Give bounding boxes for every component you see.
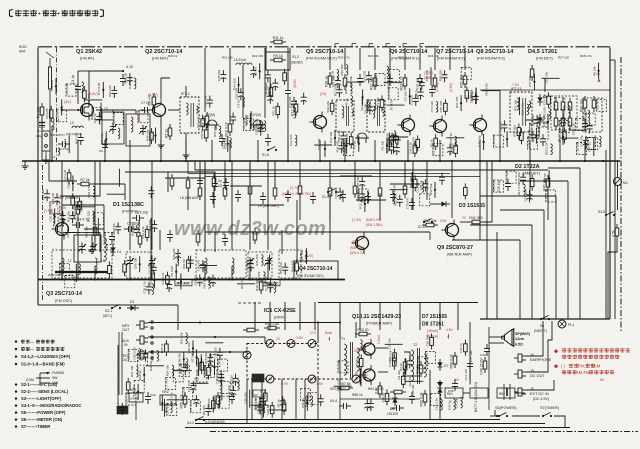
resistor R55 (180, 392, 187, 409)
wire bottom border (185, 427, 570, 429)
wire cluster power amp extra (334, 333, 471, 411)
label Q2 2SC710-14 (145, 49, 183, 61)
jack J4 earphone (514, 353, 552, 362)
label Q5 2SC710-14 (306, 49, 344, 61)
label D4,5 1T261 FM DET (528, 49, 557, 61)
svg-text:R65 4.3k: R65 4.3k (420, 392, 424, 406)
svg-text:C30 10: C30 10 (424, 352, 428, 362)
label SW OSC (258, 204, 279, 208)
svg-text:Q8 2SC710-14: Q8 2SC710-14 (476, 49, 514, 55)
switch S1-8 mid (262, 147, 277, 158)
wire cluster bottom mid2 (146, 358, 239, 416)
svg-text:R44 220: R44 220 (232, 78, 236, 90)
svg-text:C69 0.05: C69 0.05 (132, 347, 136, 360)
wire bottom bus 2 (195, 423, 545, 425)
red volts IC (276, 331, 324, 386)
wire cluster bottom mid (243, 389, 323, 418)
svg-text:C64 33k: C64 33k (103, 232, 107, 244)
svg-text:C9 5p: C9 5p (70, 270, 74, 278)
capacitor C8 2p (212, 179, 222, 191)
VR1 dark slider box (117, 406, 128, 414)
resistor R40 43k (422, 219, 438, 227)
label Q10,11 2SC1429-23 (352, 314, 401, 326)
svg-text:S6--------METER (ON): S6--------METER (ON) (21, 417, 63, 422)
switch net labels (330, 387, 363, 403)
svg-text:R11 30p: R11 30p (513, 100, 517, 111)
wire cluster IF strip lower (314, 128, 601, 157)
red note measurement (554, 348, 630, 359)
svg-text:R68 220: R68 220 (344, 83, 348, 95)
wire band switch bus 3 (205, 161, 480, 177)
svg-text:R9 1k: R9 1k (273, 54, 282, 58)
svg-text:R27 470: R27 470 (240, 277, 244, 289)
svg-text:COM: COM (26, 378, 34, 382)
svg-text:R23 1k: R23 1k (492, 181, 496, 191)
coil L osc tall (104, 238, 109, 261)
svg-text:C29 10k: C29 10k (41, 189, 45, 201)
legend switch list (15, 339, 82, 429)
svg-text:R30 1k: R30 1k (92, 222, 96, 232)
svg-text:C30 56k: C30 56k (207, 398, 211, 410)
wire am mid bus (205, 177, 430, 241)
svg-text:C4 10k: C4 10k (454, 398, 458, 408)
svg-text:L3: L3 (52, 155, 56, 159)
wire mid left components (168, 172, 229, 210)
svg-text:C9 30p: C9 30p (397, 370, 401, 380)
svg-text:EARPHONE: EARPHONE (530, 358, 552, 362)
svg-text:S7(TIMER): S7(TIMER) (540, 406, 560, 410)
svg-text:C50 56k: C50 56k (204, 95, 208, 107)
svg-text:T2: T2 (413, 343, 417, 347)
resistor R56 (213, 392, 220, 408)
svg-text:C57 2.2k: C57 2.2k (259, 389, 263, 402)
svg-text:D2: D2 (130, 300, 134, 304)
svg-text:C45 30p: C45 30p (217, 69, 221, 81)
node Q1 gate junction (42, 109, 79, 161)
capacitor C1 3.4p (36, 118, 45, 138)
svg-text:R8 10k: R8 10k (592, 66, 596, 76)
svg-text:R67 56k: R67 56k (356, 176, 360, 188)
svg-text:C52 56k: C52 56k (562, 105, 566, 117)
svg-text:R1 33k: R1 33k (381, 141, 385, 151)
capacitor C44 (392, 405, 404, 411)
capacitor C22 (417, 74, 423, 86)
resistor R50 (264, 322, 280, 330)
svg-text:R78 2.2k: R78 2.2k (253, 398, 257, 411)
wire right staircase bundle (520, 168, 580, 319)
svg-text:C1 0.05: C1 0.05 (469, 92, 473, 103)
svg-text:C24 5p: C24 5p (447, 400, 451, 410)
red volt 4.5V arrow (446, 328, 454, 339)
wire net bottom right mid (430, 370, 525, 419)
svg-text:(NIGHT): (NIGHT) (534, 329, 547, 333)
svg-text:D8 1T261: D8 1T261 (422, 322, 444, 328)
ceramic filter CF2 (251, 113, 265, 130)
wire cluster osc section (41, 169, 158, 245)
svg-text:6V: 6V (600, 378, 605, 382)
label D3 1S1555 (459, 203, 485, 209)
svg-text:S3--------LIGHT(OFF): S3--------LIGHT(OFF) (21, 396, 62, 401)
svg-text:AM,FM: AM,FM (576, 370, 590, 375)
switch S6 night (534, 316, 550, 334)
red volts Q3 (44, 206, 66, 213)
label D1 1S2138C (113, 202, 144, 214)
svg-text:R16 50: R16 50 (112, 223, 116, 233)
svg-text:R9 1k: R9 1k (345, 98, 349, 106)
svg-text:( ): ( ) (561, 364, 566, 369)
red note parens (554, 364, 614, 376)
svg-text:C7 470: C7 470 (164, 379, 168, 389)
svg-text:R28 4.7k: R28 4.7k (580, 54, 592, 58)
wire left border (37, 48, 39, 306)
label MW OSC bus (263, 280, 280, 286)
red volt (0.6V) (137, 113, 141, 122)
svg-text:S1-4: S1-4 (322, 195, 329, 199)
svg-text:R15 100: R15 100 (255, 254, 259, 266)
svg-text:R49 30p: R49 30p (145, 129, 149, 141)
ceramic filter CF3 (355, 133, 369, 143)
svg-text:R11 1k: R11 1k (273, 36, 284, 40)
svg-text:C23 10p: C23 10p (135, 211, 148, 215)
svg-text:D1: D1 (117, 250, 121, 254)
wire right border (609, 48, 611, 320)
coil L10 MW OSC (232, 258, 234, 274)
box bias 3 (497, 388, 515, 398)
label D7 D8 (422, 314, 447, 328)
svg-text:C37 2.2k: C37 2.2k (169, 392, 173, 405)
IC1 dashed box (247, 344, 318, 380)
svg-text:C49 0.05: C49 0.05 (545, 188, 549, 201)
svg-text:C40 2.2k: C40 2.2k (409, 142, 413, 155)
svg-text:S1-2: S1-2 (292, 55, 299, 59)
svg-text:D3 1S1555: D3 1S1555 (459, 203, 485, 209)
wire IF bus risers (330, 48, 465, 70)
svg-text:FM/MIG: FM/MIG (52, 371, 65, 375)
resistor R67 (480, 357, 487, 375)
svg-text:S4-2: S4-2 (187, 421, 194, 425)
vertical label BATT (474, 382, 478, 412)
wire riser x230 (229, 48, 231, 120)
svg-text:C23 5p: C23 5p (505, 172, 509, 182)
svg-text:MW ANT: MW ANT (177, 281, 190, 285)
svg-text:R18 30p: R18 30p (231, 379, 235, 391)
red volt (2.5V) (148, 93, 158, 97)
svg-text:(4.5V): (4.5V) (293, 79, 297, 88)
wire audio verticals (255, 302, 458, 330)
label Q9 2SC870-27 (437, 245, 473, 257)
svg-text:R54 4.7k: R54 4.7k (87, 185, 91, 198)
svg-text:C9 0.05: C9 0.05 (45, 108, 49, 119)
svg-text:IC1 CX-025E: IC1 CX-025E (264, 308, 296, 314)
red volt 4V (596, 72, 601, 83)
IFT-11 det transformer (510, 87, 532, 132)
svg-text:C45 100: C45 100 (416, 78, 420, 90)
svg-text:R25 1k: R25 1k (160, 343, 164, 353)
svg-text:R70 56k: R70 56k (213, 125, 217, 137)
svg-text:Q4 2SC710-14: Q4 2SC710-14 (299, 266, 333, 272)
svg-text:R35 470: R35 470 (148, 94, 152, 106)
svg-text:R26 33k: R26 33k (84, 226, 88, 238)
svg-text:R39 30p: R39 30p (131, 224, 135, 236)
svg-text:Q2 2SC710-14: Q2 2SC710-14 (145, 49, 183, 55)
resistor band mid (198, 182, 407, 200)
svg-text:C4 4p: C4 4p (71, 75, 75, 84)
svg-text:R66 30p: R66 30p (558, 129, 562, 141)
svg-text:C1: C1 (37, 129, 41, 133)
ceramic filter CF4 (387, 135, 401, 145)
svg-text:---: --- (30, 347, 35, 352)
svg-text:C8: C8 (218, 184, 222, 188)
svg-text:R27 100: R27 100 (558, 56, 569, 60)
resistor R22 (370, 74, 377, 90)
wire afc line2 (60, 161, 100, 196)
svg-text:R30 50: R30 50 (149, 361, 153, 371)
wire am det drop (530, 161, 548, 220)
red volt 1.05V (352, 334, 381, 353)
wire band switch bus 1 (195, 161, 548, 170)
wire Q2 emitter (158, 120, 165, 148)
svg-text:C47 5p: C47 5p (374, 74, 378, 84)
svg-text:2V: 2V (276, 337, 281, 341)
wire watermark band parts (100, 228, 282, 254)
IFT-1 transformer (180, 86, 199, 158)
svg-text:C38 30p: C38 30p (575, 142, 579, 154)
svg-text:(FM IF4/AM IF2): (FM IF4/AM IF2) (437, 57, 466, 61)
dashed box osc trim (248, 252, 272, 278)
transistor Q2 2SC710-14 (149, 100, 166, 121)
svg-text:C76 10: C76 10 (87, 95, 91, 105)
diode D afc (127, 300, 139, 311)
box bias 2 (470, 388, 488, 398)
svg-text:(FM MIX): (FM MIX) (152, 57, 169, 61)
resistor R41 390 (468, 216, 484, 224)
svg-text:C49: C49 (480, 353, 486, 357)
resistor R23 (400, 74, 407, 91)
svg-text:C26 2.2k: C26 2.2k (137, 109, 141, 122)
wire power amp net (340, 322, 470, 419)
svg-text:R13 33k: R13 33k (181, 387, 185, 399)
svg-text:C4 4.7k: C4 4.7k (245, 259, 249, 270)
red current (38mA) (427, 329, 438, 339)
resistor R21 (343, 74, 347, 90)
svg-text:R55 56k: R55 56k (340, 64, 344, 76)
wire volume pair (119, 332, 122, 395)
svg-text:3.4p: 3.4p (36, 134, 42, 138)
svg-text:C48 15.0V: C48 15.0V (480, 358, 484, 375)
svg-text:L2: L2 (70, 121, 74, 125)
svg-text:R59 100: R59 100 (51, 193, 55, 205)
wire B+ bus (22, 160, 620, 162)
resistor R12 (291, 100, 298, 116)
svg-text:R44 30p: R44 30p (387, 87, 391, 99)
capacitor C6 (120, 65, 133, 86)
svg-text:1S1209: 1S1209 (387, 412, 398, 416)
wire bottom right net (490, 321, 565, 428)
svg-text:10V: 10V (362, 374, 369, 378)
label MW ANT2 (180, 196, 200, 200)
svg-text:(4.6V): (4.6V) (449, 83, 453, 92)
svg-text:R44 56k: R44 56k (537, 126, 541, 138)
wire cluster am row (58, 254, 288, 294)
svg-text:Q6 2SC710-14: Q6 2SC710-14 (390, 49, 428, 55)
switch S5 power (495, 406, 517, 417)
svg-text:R56 50: R56 50 (543, 173, 547, 183)
red volt (2.7V) MW (282, 186, 311, 196)
red volt 7.5V (512, 83, 520, 87)
capacitor C46 (448, 379, 458, 393)
svg-text:BATT 4.5V(UM-3X3): BATT 4.5V(UM-3X3) (474, 382, 478, 412)
resistor R5 (165, 124, 172, 140)
label IC1 CX-025E (264, 308, 296, 320)
label Q6 2SC710-14 (390, 49, 428, 61)
dashed box det right (583, 98, 602, 132)
svg-text:1.05V: 1.05V (352, 349, 361, 353)
svg-text:C25 0.05: C25 0.05 (425, 334, 429, 347)
svg-text:C40 30p: C40 30p (477, 135, 481, 147)
svg-text:S4-5: S4-5 (598, 210, 605, 214)
svg-text:6V: 6V (455, 378, 460, 382)
svg-text:R22 100: R22 100 (252, 54, 263, 58)
svg-text:C79 30p: C79 30p (334, 187, 338, 199)
svg-text:S5(POWER): S5(POWER) (495, 406, 517, 410)
dashed box osc trim2 (279, 250, 301, 278)
svg-text:C13 470: C13 470 (464, 369, 468, 381)
svg-text:S2-1: S2-1 (105, 309, 112, 313)
svg-text:C34 30p: C34 30p (580, 135, 584, 147)
svg-text:L7: L7 (68, 259, 72, 263)
ground main bus (22, 161, 39, 169)
svg-text:R68 100: R68 100 (57, 210, 61, 222)
svg-text:C27 2.2k: C27 2.2k (63, 169, 67, 182)
svg-text:L7 (SW ANT): L7 (SW ANT) (60, 196, 80, 200)
svg-text:IFT-1: IFT-1 (181, 92, 190, 96)
svg-text:R64 30~60: R64 30~60 (368, 387, 384, 391)
svg-text:R66 4.3k: R66 4.3k (450, 354, 454, 368)
svg-text:R31 10k: R31 10k (408, 375, 412, 387)
ground C18 (89, 235, 96, 253)
resistor R7 2k (49, 178, 125, 186)
svg-text:S4-1,2---LOUDNES (OFF): S4-1,2---LOUDNES (OFF) (21, 354, 71, 359)
svg-text:(3V): (3V) (64, 100, 71, 104)
transistor Q3 2SC710-14 osc (52, 219, 69, 240)
svg-text:R47 50: R47 50 (299, 252, 303, 262)
svg-text:1.9V: 1.9V (316, 382, 324, 386)
wire cluster front end extra (45, 72, 157, 153)
red volt (0V) MW (350, 240, 365, 255)
varicap tuning box Q1 (102, 107, 124, 144)
red volts Q9 (440, 216, 467, 223)
red volt (3V) (64, 100, 71, 104)
svg-text:C60 4.7k: C60 4.7k (58, 262, 62, 275)
svg-text:L8 (SW ANT): L8 (SW ANT) (180, 196, 200, 200)
svg-text:R52 56k: R52 56k (429, 183, 433, 195)
svg-text:CF(M): CF(M) (206, 113, 215, 117)
capacitor C35 (497, 179, 511, 192)
svg-text:Q3 2SC710-14: Q3 2SC710-14 (46, 291, 82, 297)
svg-text:R34 100: R34 100 (335, 141, 339, 153)
svg-text:R21 30p: R21 30p (409, 177, 413, 189)
resistor R63 20 (355, 328, 371, 336)
wire bottom bus 1 (195, 419, 500, 421)
svg-text:C28 33k: C28 33k (223, 137, 227, 149)
switch S1-6 mid (418, 219, 433, 230)
pilot lamp PL1 (558, 320, 574, 328)
node B+ bus junctions (51, 160, 604, 162)
wire jack links (148, 321, 340, 355)
svg-text:C18 220: C18 220 (214, 347, 218, 359)
svg-text:(FM RF): (FM RF) (80, 57, 95, 61)
S3 dark box (252, 374, 264, 382)
resistor R65 (420, 390, 427, 407)
svg-text:R52 10k: R52 10k (193, 377, 197, 389)
svg-text:R25 1k: R25 1k (398, 56, 408, 60)
svg-text:R3 0.05: R3 0.05 (170, 266, 174, 277)
svg-text:C74 100: C74 100 (430, 101, 434, 113)
switch S7 timer (540, 406, 560, 417)
capacitor C40 (145, 392, 156, 404)
svg-text:4.5V: 4.5V (446, 328, 454, 332)
svg-text:R72 30p: R72 30p (513, 125, 517, 137)
svg-text:C65 470: C65 470 (197, 260, 201, 272)
svg-text:C13 470: C13 470 (289, 134, 293, 146)
varactor D1 diode (110, 244, 121, 256)
svg-text:R59 100: R59 100 (517, 172, 521, 184)
wire audio bus (238, 302, 478, 305)
svg-text:Q1 2SK42: Q1 2SK42 (76, 49, 102, 55)
svg-text:R75 0.05: R75 0.05 (543, 107, 547, 120)
wire staircase horiz (452, 168, 580, 240)
VR2 tone box (160, 390, 176, 405)
battery sym (504, 384, 510, 400)
wire top border ticks (335, 44, 424, 48)
svg-text:S6: S6 (540, 324, 544, 328)
svg-text:R30 220: R30 220 (151, 350, 155, 362)
resistor R57 (337, 382, 353, 390)
varcap tuner AM (126, 256, 156, 268)
svg-text:(POWER AMP): (POWER AMP) (366, 322, 393, 326)
svg-text:R21 10k: R21 10k (222, 56, 233, 60)
svg-text:R55 220: R55 220 (438, 70, 442, 82)
svg-text:R26 10k: R26 10k (428, 54, 439, 58)
svg-text:Q9 2SC870-27: Q9 2SC870-27 (437, 245, 473, 251)
wire pwr horizontal (340, 398, 420, 400)
wire Q1 top rail (78, 71, 89, 104)
svg-text:R41 390: R41 390 (469, 216, 482, 220)
transistor Q6 2SC710-14 (398, 115, 415, 136)
svg-text:S1-8: S1-8 (262, 153, 269, 157)
wire cluster bottom left mid (116, 332, 238, 417)
svg-text:R49 30p: R49 30p (255, 279, 259, 291)
svg-text:C14 100: C14 100 (307, 392, 311, 404)
svg-text:C77 33k: C77 33k (116, 402, 120, 414)
transistor Q10 (359, 339, 375, 359)
svg-text:C58 2.2k: C58 2.2k (572, 123, 576, 136)
svg-text:R18 56k: R18 56k (204, 352, 208, 364)
transformer T2 (411, 343, 426, 384)
svg-text:R58 1k: R58 1k (352, 393, 363, 397)
svg-text:C76 0.05: C76 0.05 (254, 119, 258, 132)
svg-text:R7 2k: R7 2k (80, 178, 89, 182)
svg-text:R61 50: R61 50 (182, 259, 186, 269)
svg-text:(FM DET): (FM DET) (536, 57, 553, 61)
svg-text:6.5Ω: 6.5Ω (515, 343, 523, 347)
svg-text:R52 5p: R52 5p (164, 403, 168, 413)
svg-text:ANT: ANT (19, 50, 26, 54)
svg-text:R45 0.05: R45 0.05 (202, 276, 206, 289)
transistor Q9 2SC870-27 (442, 220, 459, 241)
svg-text:(METER AMP): (METER AMP) (447, 253, 473, 257)
svg-text:R63 20: R63 20 (357, 328, 368, 332)
